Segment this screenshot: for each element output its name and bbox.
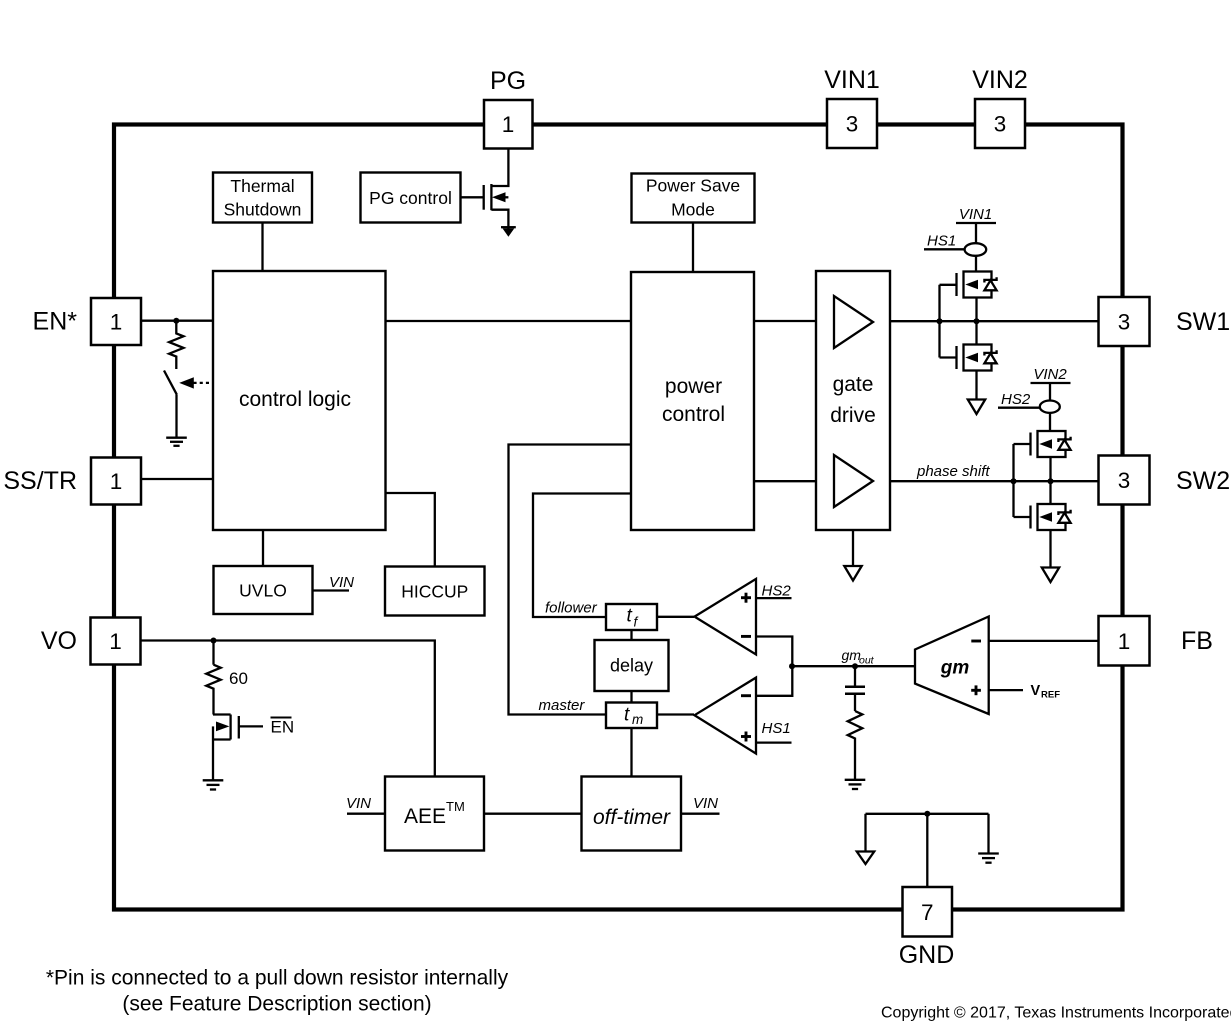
ground arrow below Q1 bbox=[501, 226, 516, 237]
diode Q3 body bbox=[984, 350, 996, 363]
svg-text:60: 60 bbox=[229, 669, 248, 688]
transistor Q5 (SW2 low side) bbox=[1014, 504, 1066, 530]
transistor Q4 (SW2 high side) bbox=[1014, 431, 1066, 457]
resistor EN pulldown bbox=[169, 321, 183, 369]
svg-text:VIN2: VIN2 bbox=[1033, 366, 1067, 383]
node EN junction bbox=[173, 318, 179, 324]
wire HS2 underline bbox=[998, 407, 1040, 409]
block HICCUP bbox=[385, 567, 485, 616]
wire tm to off-timer bbox=[630, 728, 632, 777]
svg-text:SS/TR: SS/TR bbox=[3, 467, 77, 495]
svg-text:phase shift: phase shift bbox=[916, 463, 990, 480]
wire tm to comparator B bbox=[657, 713, 694, 715]
pin VIN1 bbox=[827, 99, 877, 148]
wire VIN1 to HS1 oval bbox=[975, 223, 977, 244]
oval HS2 bbox=[1040, 401, 1060, 413]
resistor 60 bbox=[206, 665, 220, 715]
ground arrow below Q5 bbox=[1042, 568, 1059, 583]
svg-text:Thermal: Thermal bbox=[230, 176, 294, 196]
ground arrow below Q3 bbox=[968, 400, 985, 415]
wire Q5 source down bbox=[1049, 530, 1051, 568]
diode Q5 body bbox=[1058, 510, 1070, 523]
svg-text:gate: gate bbox=[833, 373, 874, 396]
node GND rail bbox=[924, 811, 930, 817]
svg-text:VIN2: VIN2 bbox=[972, 66, 1028, 94]
switch EN bbox=[164, 371, 177, 395]
wire SW1 gates branch bbox=[938, 285, 940, 358]
wire SW1 net bbox=[890, 320, 1099, 322]
svg-text:VIN1: VIN1 bbox=[824, 66, 880, 94]
svg-text:1: 1 bbox=[110, 469, 123, 494]
wire tf to delay bbox=[630, 630, 632, 640]
minus sign gm bbox=[971, 640, 981, 643]
block AEE bbox=[385, 777, 484, 851]
ground EN switch bbox=[166, 438, 187, 446]
node gmout bbox=[852, 663, 858, 669]
block off-timer bbox=[582, 777, 682, 851]
wire gm plus to VREF bbox=[989, 689, 1023, 691]
svg-text:1: 1 bbox=[109, 629, 122, 654]
dashed control wire to switch bbox=[194, 382, 214, 384]
outer IC boundary bbox=[114, 125, 1123, 910]
wire Q4 source to SW2 bbox=[1049, 457, 1051, 481]
svg-text:Power Save: Power Save bbox=[646, 176, 740, 196]
buffer A (upper) in gate drive bbox=[834, 296, 873, 348]
wire switch to ground bbox=[175, 395, 177, 438]
transistor Q3 (SW1 low side) bbox=[940, 345, 992, 371]
wire SS/TR to control logic bbox=[141, 478, 213, 480]
svg-text:SW1: SW1 bbox=[1176, 308, 1230, 336]
pin FB bbox=[1099, 616, 1150, 666]
label gmout bbox=[842, 647, 875, 667]
svg-text:1: 1 bbox=[1118, 629, 1131, 654]
wire Q3 source down bbox=[975, 371, 977, 400]
block tf bbox=[606, 604, 657, 630]
svg-text:t: t bbox=[624, 705, 630, 726]
wire power control to gate drive (upper) bbox=[754, 320, 816, 322]
wire Q2 source to SW1 bbox=[975, 298, 977, 322]
transistor Q2 (SW1 high side) bbox=[940, 272, 992, 298]
svg-text:Mode: Mode bbox=[671, 200, 715, 220]
svg-text:GND: GND bbox=[899, 941, 955, 969]
svg-text:power: power bbox=[665, 375, 722, 398]
wire SW2 gates branch bbox=[1012, 444, 1014, 517]
arrow Q1 bulk bbox=[492, 192, 506, 202]
oval HS1 bbox=[965, 243, 987, 256]
svg-text:HS2: HS2 bbox=[1001, 391, 1031, 408]
svg-text:REF: REF bbox=[1041, 690, 1060, 701]
svg-text:3: 3 bbox=[1118, 468, 1131, 493]
wire AEE VIN stub bbox=[347, 813, 385, 815]
block PG control bbox=[361, 173, 461, 223]
node comparator common bbox=[789, 663, 795, 669]
svg-text:1: 1 bbox=[110, 310, 123, 335]
svg-text:1: 1 bbox=[502, 112, 515, 137]
block tm bbox=[606, 703, 657, 729]
label VREF bbox=[1031, 683, 1061, 701]
pin VIN2 bbox=[975, 99, 1025, 148]
node SW1 fet branch bbox=[974, 318, 980, 324]
svg-text:PG: PG bbox=[490, 67, 526, 95]
wire master: power control to tm bbox=[509, 445, 632, 715]
pin EN bbox=[91, 298, 141, 345]
svg-text:TM: TM bbox=[446, 799, 465, 814]
block Thermal Shutdown bbox=[213, 173, 312, 223]
buffer B (lower) in gate drive bbox=[834, 455, 873, 507]
wire oval to Q2 drain bbox=[975, 256, 977, 272]
block UVLO bbox=[214, 566, 313, 614]
ground compensation bbox=[845, 780, 866, 789]
wire comp B minus to node bbox=[756, 666, 792, 696]
capacitor compensation bbox=[845, 687, 865, 694]
node SW2 gate branch bbox=[1011, 478, 1017, 484]
svg-text:VIN: VIN bbox=[693, 795, 718, 812]
resistor compensation bbox=[848, 711, 863, 780]
svg-text:EN*: EN* bbox=[33, 308, 78, 336]
arrow Q5 channel bbox=[1039, 512, 1052, 522]
svg-text:V: V bbox=[1031, 683, 1041, 699]
svg-text:gm: gm bbox=[940, 658, 970, 679]
wire node to gm output bbox=[792, 665, 915, 667]
svg-text:VIN: VIN bbox=[346, 795, 371, 812]
wire tf to comparator A bbox=[657, 616, 694, 618]
svg-text:PG control: PG control bbox=[369, 188, 452, 208]
arrow Q2 channel bbox=[965, 280, 978, 290]
arrowhead on dashed wire bbox=[179, 377, 194, 388]
svg-text:3: 3 bbox=[1118, 310, 1131, 335]
wire GND rail to GND pin bbox=[926, 814, 928, 887]
wire EN pin to control logic bbox=[141, 320, 213, 322]
plus sign comp B bbox=[741, 732, 751, 742]
svg-text:HICCUP: HICCUP bbox=[401, 582, 468, 602]
comparator A (follower, HS2) bbox=[695, 579, 757, 655]
wire GND rail bbox=[866, 813, 989, 815]
transistor Q6 (VO discharge) bbox=[213, 715, 263, 781]
svg-text:VIN: VIN bbox=[329, 574, 354, 591]
wire off-timer VIN stub bbox=[681, 813, 720, 815]
arrow Q6 channel bbox=[216, 722, 229, 732]
wire UVLO to control logic bbox=[262, 530, 264, 566]
wire follower: power control to tf bbox=[533, 494, 631, 618]
node SW2 fet branch bbox=[1048, 478, 1054, 484]
svg-text:UVLO: UVLO bbox=[239, 581, 287, 601]
ground arrow (left) bbox=[857, 852, 874, 865]
wire gmout to capacitor bbox=[854, 666, 856, 686]
wire power control to gate drive (lower) bbox=[754, 480, 816, 482]
ground arrow below gate drive bbox=[844, 566, 861, 581]
wire control logic to HICCUP bbox=[386, 493, 435, 567]
svg-text:VIN1: VIN1 bbox=[959, 206, 992, 223]
wire Q3 drain to SW1 bbox=[975, 321, 977, 344]
block gate drive bbox=[816, 271, 890, 530]
svg-text:(see Feature Description secti: (see Feature Description section) bbox=[122, 993, 431, 1016]
svg-text:*Pin is connected to a pull do: *Pin is connected to a pull down resisto… bbox=[46, 967, 509, 990]
ground Q6 bbox=[203, 780, 224, 789]
block delay bbox=[595, 640, 669, 691]
svg-text:out: out bbox=[859, 655, 875, 667]
plus sign gm bbox=[971, 685, 981, 695]
wire VIN2 rail underline bbox=[1031, 382, 1071, 384]
svg-text:m: m bbox=[632, 712, 643, 727]
svg-text:3: 3 bbox=[994, 112, 1007, 137]
wire VIN1 rail underline bbox=[956, 222, 996, 224]
svg-text:7: 7 bbox=[921, 900, 934, 925]
plus sign comp A bbox=[741, 593, 751, 603]
wire GND rail right drop bbox=[987, 814, 989, 853]
wire delay to tm bbox=[630, 691, 632, 703]
wire GND rail left drop bbox=[864, 814, 866, 852]
svg-text:Shutdown: Shutdown bbox=[224, 200, 302, 220]
pin VO bbox=[91, 618, 141, 665]
node VO junction bbox=[211, 638, 217, 644]
wire Power Save Mode to power control bbox=[692, 223, 694, 273]
svg-text:drive: drive bbox=[830, 404, 876, 427]
wire gm minus to FB pin bbox=[989, 640, 1099, 642]
ground earth (right) bbox=[978, 854, 999, 863]
wire capacitor to resistor bbox=[854, 694, 856, 711]
svg-text:HS1: HS1 bbox=[927, 233, 956, 250]
wire PG pin to Q1 drain bbox=[491, 149, 508, 187]
op-amp gm bbox=[915, 617, 989, 715]
wire VIN2 to HS2 oval bbox=[1049, 383, 1051, 401]
wire UVLO VIN stub bbox=[313, 589, 350, 591]
svg-text:master: master bbox=[539, 697, 586, 714]
svg-text:HS2: HS2 bbox=[762, 582, 792, 599]
wire VO to resistor bbox=[212, 641, 214, 665]
pin SW1 bbox=[1099, 297, 1150, 346]
svg-text:control: control bbox=[662, 403, 725, 426]
wire Q5 drain to SW2 bbox=[1049, 481, 1051, 504]
pin PG bbox=[484, 100, 533, 149]
minus sign comp B bbox=[741, 694, 751, 697]
svg-text:AEE: AEE bbox=[404, 805, 446, 828]
diode Q4 body bbox=[1058, 437, 1070, 450]
node SW1 gate branch bbox=[937, 318, 943, 324]
svg-text:delay: delay bbox=[610, 656, 653, 676]
block Power Save Mode bbox=[632, 174, 755, 223]
svg-text:SW2: SW2 bbox=[1176, 467, 1230, 495]
wire Thermal Shutdown to control logic bbox=[261, 223, 263, 272]
svg-text:FB: FB bbox=[1181, 627, 1213, 655]
comparator B (master, HS1) bbox=[695, 678, 757, 754]
diode Q2 body bbox=[984, 277, 996, 290]
svg-text:follower: follower bbox=[545, 600, 598, 617]
wire gate drive ground stub bbox=[852, 530, 854, 566]
wire HS1 underline bbox=[924, 248, 965, 250]
minus sign comp A bbox=[741, 635, 751, 638]
svg-text:Copyright © 2017, Texas Instru: Copyright © 2017, Texas Instruments Inco… bbox=[881, 1005, 1231, 1022]
label EN bar bbox=[271, 718, 295, 737]
wire HS1 input underline bbox=[756, 741, 792, 743]
wire HS2 input underline bbox=[756, 597, 792, 599]
svg-text:t: t bbox=[627, 606, 633, 627]
pin SS/TR bbox=[91, 458, 141, 505]
wire VO net bbox=[141, 641, 435, 777]
wire SW2 net (phase shift) bbox=[890, 480, 1099, 482]
arrow Q3 channel bbox=[965, 353, 978, 363]
wire AEE to off-timer bbox=[484, 813, 582, 815]
wire control logic to power control bbox=[386, 320, 632, 322]
svg-text:VO: VO bbox=[41, 627, 77, 655]
svg-text:EN: EN bbox=[271, 718, 295, 737]
block power control bbox=[631, 272, 754, 530]
transistor Q1 (PG open-drain NMOS) bbox=[461, 184, 509, 226]
pin GND bbox=[903, 887, 953, 937]
svg-text:control logic: control logic bbox=[239, 388, 351, 411]
wire oval to Q4 drain bbox=[1049, 413, 1051, 431]
svg-text:off-timer: off-timer bbox=[593, 806, 671, 829]
block control logic bbox=[213, 271, 386, 530]
pin SW2 bbox=[1099, 456, 1150, 505]
svg-text:3: 3 bbox=[846, 112, 859, 137]
arrow Q4 channel bbox=[1039, 439, 1052, 449]
wire comp A minus to node bbox=[756, 637, 792, 667]
svg-text:HS1: HS1 bbox=[762, 720, 791, 737]
